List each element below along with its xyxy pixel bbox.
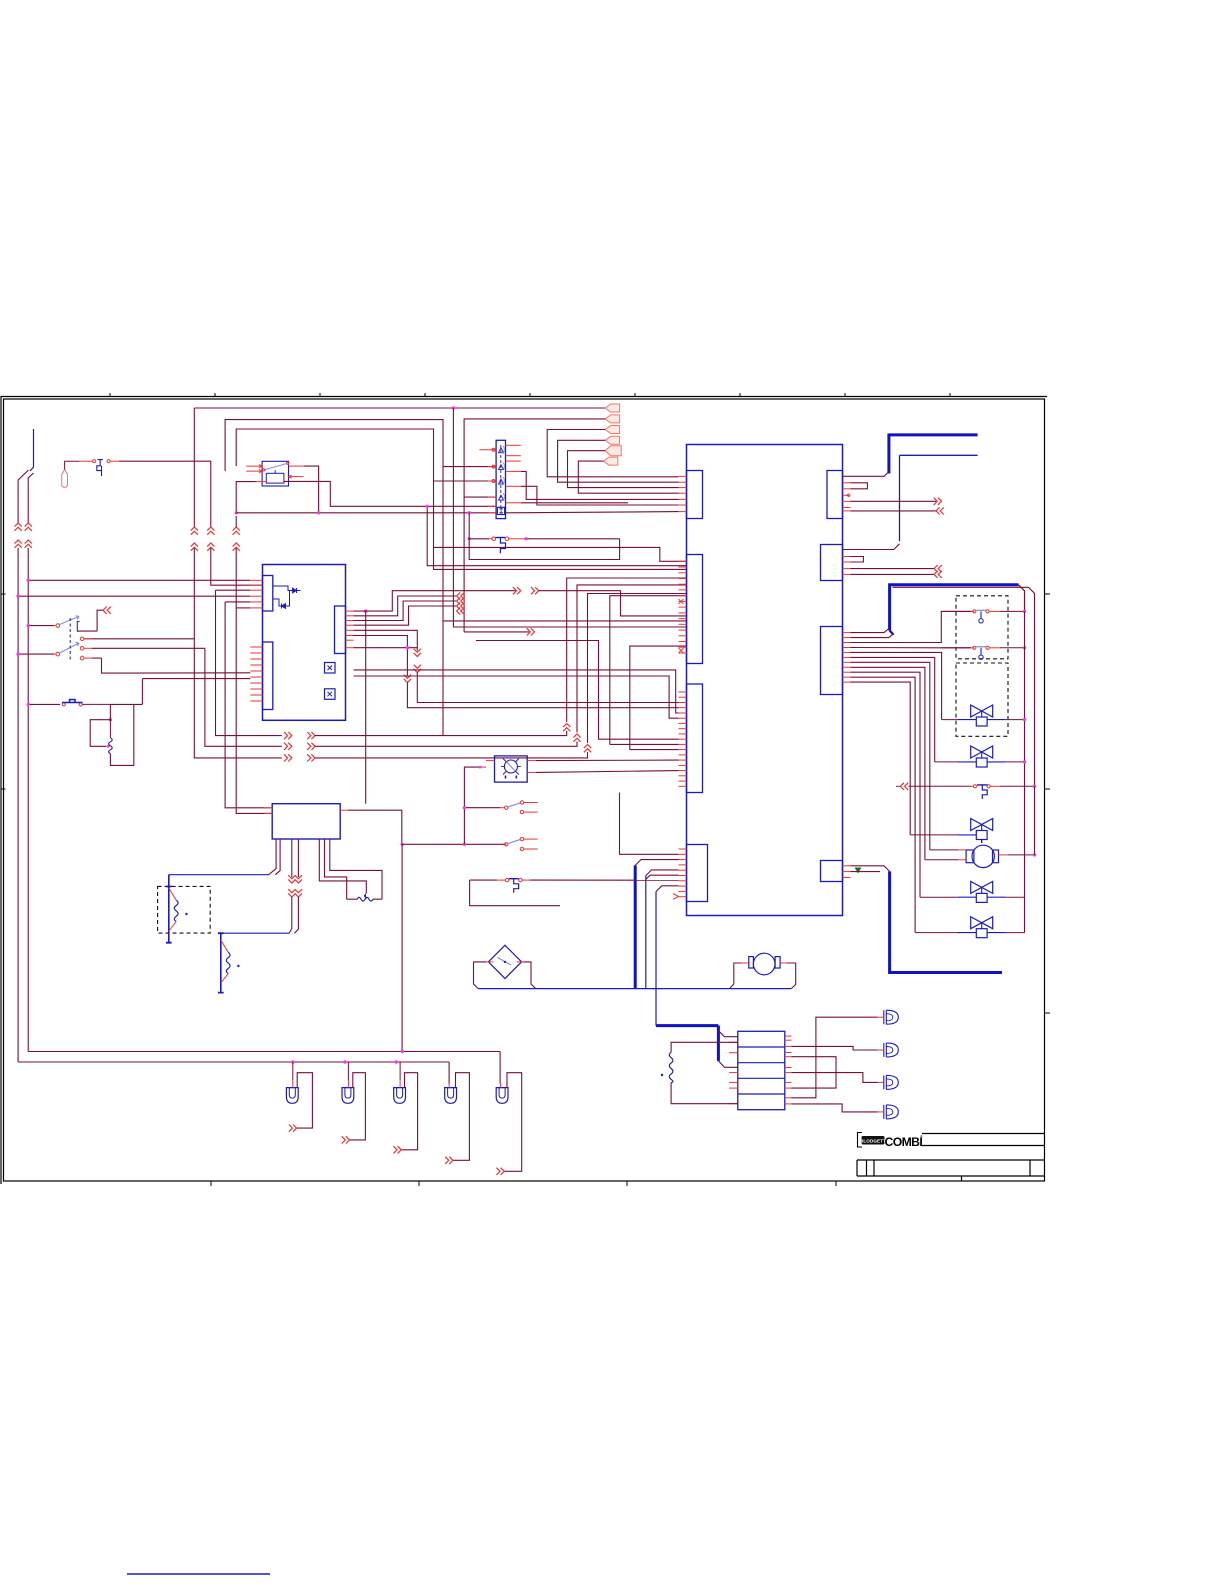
igniter sub box xyxy=(497,507,504,514)
lamp LP1 return wire xyxy=(297,1073,313,1128)
LED3 wire xyxy=(878,1081,884,1083)
wire bus x453.4 xyxy=(453,408,686,627)
red arrow pin xyxy=(847,494,850,497)
wire column x225.1 to transformer xyxy=(225,602,272,808)
wire T1 sec3 xyxy=(297,839,299,877)
wire column x426.5 xyxy=(427,506,686,565)
wire transformer feed drop xyxy=(365,611,367,804)
wire L1 rail lower xyxy=(18,548,449,1062)
junction dot xyxy=(107,745,110,748)
wire bullet to switch xyxy=(65,461,79,469)
diode D2 xyxy=(273,599,282,606)
wire S8 left drop xyxy=(470,880,560,906)
wire B1 right pin6 down xyxy=(354,636,408,677)
wire lug4 xyxy=(558,440,679,482)
junction dot xyxy=(468,511,471,514)
connector lug F6 xyxy=(603,457,617,465)
lamp LP5 return wire xyxy=(504,1073,522,1172)
wire y678.6 xyxy=(142,679,250,705)
wire B1 right pin1 through xyxy=(354,591,516,611)
wire nest y429 xyxy=(236,429,686,569)
wire y547.4 to B2 pin1 xyxy=(434,547,687,561)
LED2 wire xyxy=(878,1049,884,1051)
lamp H1 wires xyxy=(486,760,495,762)
wire CN3R pin10 xyxy=(851,677,916,932)
transformer right pin wire xyxy=(340,809,348,811)
B1 connector CN-C xyxy=(335,606,346,654)
border frame inner xyxy=(4,399,1045,1181)
relay pin B xyxy=(246,470,262,472)
wire to offpage right 2 xyxy=(851,510,937,512)
wire y620.9 east xyxy=(443,620,687,622)
igniter pin L4 red xyxy=(488,496,496,498)
wire igniter L2 feed xyxy=(443,466,496,468)
LED4 wire xyxy=(878,1111,884,1113)
blue bus y988.6 xyxy=(478,988,791,990)
border frame outer xyxy=(1,397,1047,1185)
B2 connector CN2R xyxy=(821,545,843,581)
igniter pin L2 red xyxy=(488,466,496,468)
thin blue bus 455 xyxy=(900,454,978,456)
wire column x204.9 xyxy=(205,648,282,746)
B2 CN2R pin stubs xyxy=(843,556,851,558)
B2 CN1L pin stubs xyxy=(679,475,687,477)
switch gang dashed link xyxy=(69,618,71,660)
junction dot xyxy=(463,843,466,846)
wire CN1R pin1 ramp xyxy=(843,472,889,477)
main controller B2 xyxy=(687,445,843,916)
wire CN3R pin5 xyxy=(851,652,942,719)
junction dot xyxy=(401,1050,404,1053)
indicator lamp LP5 xyxy=(496,1088,508,1104)
solenoid valve V5 xyxy=(971,881,993,893)
igniter pin L6 red xyxy=(488,512,496,514)
junction dot xyxy=(426,505,429,508)
connector lug F2 xyxy=(605,415,619,423)
lamp LP2 return wire xyxy=(350,1073,366,1140)
wire CN3R pin3 to probe1 xyxy=(851,611,972,642)
zone tick marks left xyxy=(1,593,6,595)
terminal block TB1 xyxy=(738,1031,785,1109)
wire lug3 xyxy=(547,430,678,477)
wire y673.1 xyxy=(102,658,251,673)
push button S4 xyxy=(28,703,60,705)
red mark CN4L xyxy=(673,894,679,900)
wire top-left jog xyxy=(18,470,33,492)
B1 pin stubs upper xyxy=(250,579,262,581)
control module B1 xyxy=(263,565,346,721)
logo bracket xyxy=(858,1133,863,1148)
switch arm upper xyxy=(60,617,80,625)
LED crossing wire xyxy=(791,1057,836,1088)
B2 connector CN1R xyxy=(827,471,843,519)
wire CN4L to col x656 xyxy=(656,886,679,892)
switch arm lower xyxy=(60,643,80,653)
igniter right pin R5 wire xyxy=(506,485,521,487)
wire CN4L long west xyxy=(620,793,679,855)
igniter right pin R2 xyxy=(506,455,521,457)
LED1 wire xyxy=(878,1016,884,1018)
indicator lamp H1 xyxy=(495,756,528,782)
dashed valve box xyxy=(956,663,1008,736)
wire B1 right pin5 down xyxy=(354,630,418,650)
junction dot xyxy=(1023,610,1026,613)
wire right rail x1024.5 xyxy=(1024,611,1026,932)
bus y580.3 xyxy=(28,579,250,581)
wire CN4L to thick blue xyxy=(635,860,678,866)
LED3 xyxy=(884,1075,887,1089)
junction dot xyxy=(109,718,112,721)
wire arrow bus 3 xyxy=(284,754,292,761)
wire parallel mid xyxy=(893,587,1035,786)
wire to offpage right 4 xyxy=(851,573,935,575)
selector switch S3 common upper xyxy=(28,625,54,627)
pump motor M1 xyxy=(972,845,994,867)
igniter pin L3 red xyxy=(488,480,496,482)
B2 CN3L pin stubs xyxy=(679,691,687,693)
wire B1 aux east 2 xyxy=(354,676,679,718)
heater element E2 xyxy=(220,933,222,992)
wire arrow bus 2 xyxy=(284,743,292,750)
switch bracket xyxy=(77,622,79,632)
wire igniter L4 feed xyxy=(464,496,496,498)
thick blue bus south xyxy=(634,865,637,988)
wire B1 pin5 west xyxy=(225,601,250,603)
zone tick marks bottom xyxy=(210,1181,212,1186)
wire break column x236.2 xyxy=(233,527,240,535)
B2 CN3R pin stubs xyxy=(843,632,851,634)
wire CN3R pin11 xyxy=(851,682,911,835)
B2 CN2L pin stubs xyxy=(679,560,687,562)
wire lamp rail xyxy=(401,844,403,1051)
wire CN2R pin1 ramp xyxy=(843,544,900,550)
LED1 xyxy=(884,1010,887,1024)
red x mark pins xyxy=(679,599,684,604)
lamp LP5 feed wire xyxy=(500,1084,502,1088)
connector lug F4 xyxy=(605,436,619,444)
flame sensor wires xyxy=(487,961,494,963)
wire L2 rail lower xyxy=(28,548,500,1052)
lamp LP4 feed wire xyxy=(448,1084,450,1088)
wire to offpage arrow xyxy=(97,610,103,631)
wire CN3R pin1 ramp xyxy=(851,629,889,633)
motor M1 wires xyxy=(930,849,958,851)
wire CN3R pin7 xyxy=(851,662,930,850)
wire CN3R pin9 xyxy=(851,672,921,897)
junction dot xyxy=(468,537,471,540)
junction dot xyxy=(452,406,455,409)
diode D1 xyxy=(273,586,293,591)
title block lines xyxy=(857,1134,1045,1177)
switch contact row 2 xyxy=(80,647,84,651)
B2 connector CN3R xyxy=(821,627,843,695)
wire coil return east xyxy=(284,481,496,506)
connector lug F1 xyxy=(605,404,619,412)
indicator lamp LP2 xyxy=(342,1088,354,1104)
wire break column x210.8 xyxy=(210,471,212,527)
connector bullet J1 xyxy=(62,470,68,488)
wire x609.8 column xyxy=(610,596,687,745)
thick blue bottom path xyxy=(656,1024,718,1027)
selector switch S7 xyxy=(505,843,507,845)
wire arrow bus 1 xyxy=(284,732,292,739)
thick blue bus mid xyxy=(890,585,1019,631)
dashed probe box xyxy=(956,596,1008,659)
wire lug1 feed xyxy=(194,407,605,409)
off-page arrows rails upper xyxy=(15,523,22,531)
relay pin A xyxy=(246,465,262,467)
pressure switch S8 xyxy=(470,879,498,881)
wire CN3R pin6 xyxy=(851,657,935,762)
junction dot xyxy=(364,609,367,612)
solenoid valve V3 xyxy=(971,746,993,758)
terminal block left pin stubs xyxy=(729,1041,738,1043)
junction dot xyxy=(1033,853,1036,856)
solenoid valve V4 xyxy=(971,819,993,831)
svg-text:®: ® xyxy=(920,1134,923,1139)
wire L2 rail xyxy=(27,492,29,523)
wire switch to east xyxy=(107,460,110,463)
wire blue to block pin3 xyxy=(718,1061,737,1067)
indicator lamp LP3 xyxy=(394,1088,406,1104)
wire B1 right pin4 xyxy=(354,606,457,625)
B2 CN1R pin stubs xyxy=(843,482,851,484)
wire CN4R to thick blue xyxy=(851,866,890,872)
relay coil pin D stub xyxy=(289,476,304,478)
bus switches feed xyxy=(402,843,506,845)
wire offpage east xyxy=(464,631,529,633)
wire column x215.5 xyxy=(216,590,282,735)
igniter pin L1 xyxy=(479,449,496,451)
wire CN3R pin2 ramp xyxy=(851,634,894,638)
wire CN3R pin4 to probe2 xyxy=(851,647,972,649)
switch contact row 3 xyxy=(80,656,84,660)
wire x645.8 end xyxy=(645,988,647,990)
bus y512.8 xyxy=(236,512,496,514)
offpage arrow extra xyxy=(457,607,465,614)
wire B1 right pin3 xyxy=(354,601,457,621)
zone tick marks top xyxy=(109,393,111,397)
wire CN2R U loop xyxy=(851,557,864,563)
relay coil pin E wire xyxy=(256,481,266,483)
junction dot xyxy=(235,511,238,514)
B2 connector CN4L xyxy=(687,845,708,902)
junction dot xyxy=(1023,646,1026,649)
junction dot xyxy=(463,806,466,809)
LED4 xyxy=(884,1105,887,1119)
wire B1 pin6 west xyxy=(236,607,250,609)
bus y596.2 xyxy=(18,595,250,597)
solenoid valve V2 xyxy=(971,705,993,717)
transformer T1 xyxy=(272,804,340,839)
wire B1 right pin8 bus xyxy=(354,647,418,649)
flame sensor D3 xyxy=(488,945,521,978)
junction dot xyxy=(16,595,19,598)
indicator lamp LP1 xyxy=(286,1088,298,1104)
svg-text:BLODGETT: BLODGETT xyxy=(860,1139,886,1144)
igniter module A1 xyxy=(496,440,505,518)
blower motor M2 xyxy=(753,953,775,975)
wire x598.5 column xyxy=(476,641,679,740)
solenoid valve V6 xyxy=(971,917,993,929)
lamp LP2 feed wire xyxy=(347,1062,349,1080)
junction dot xyxy=(27,579,30,582)
wire B1 aux east 1 xyxy=(354,670,679,713)
wire blue drop xyxy=(30,429,34,471)
wire L1 rail xyxy=(17,492,19,523)
junction dot xyxy=(525,537,528,540)
wire lug6 xyxy=(578,461,678,493)
indicator lamp LP4 xyxy=(445,1088,457,1104)
level probe P1 xyxy=(942,610,972,612)
B1 right pin stubs xyxy=(346,610,354,612)
green polarity mark xyxy=(856,868,861,873)
resistor R3 loop xyxy=(671,1042,738,1052)
junction dot xyxy=(27,703,30,706)
selector switch S6 xyxy=(464,807,500,809)
B2 connector CN1L xyxy=(687,471,703,519)
transformer left pin stubs xyxy=(264,808,272,813)
igniter right pin R3 xyxy=(506,460,521,462)
junction dot xyxy=(400,843,403,846)
B1 connector CN-A xyxy=(263,576,273,612)
junction dot xyxy=(317,511,320,514)
wire PS2 left drop xyxy=(468,513,470,539)
igniter pin L5 red xyxy=(488,505,496,507)
lamp LP4 return wire xyxy=(453,1073,470,1161)
resistor R1 loop xyxy=(90,704,110,746)
connector lug F3 xyxy=(605,426,619,434)
wire right rail x1034.5 lower xyxy=(1034,786,1036,855)
B2 CN4L pin stubs xyxy=(679,848,687,850)
wire CN1R U loop xyxy=(851,483,868,489)
wire bus y512.8 east xyxy=(506,512,679,513)
wire CN3R pin8 xyxy=(851,667,925,860)
wire igniter L3 feed xyxy=(434,480,497,482)
level probe P2 xyxy=(942,647,972,649)
selector switch S3 common lower xyxy=(18,653,54,655)
wire to offpage right 1 xyxy=(851,500,937,502)
pressure switch S2 xyxy=(469,538,489,540)
wire to offpage right 3 xyxy=(851,568,935,570)
wire lug5 xyxy=(568,451,679,488)
LED2 xyxy=(884,1043,887,1057)
relay pin C wire xyxy=(289,465,304,467)
flow switch S1 xyxy=(93,460,96,463)
lamp LP3 return wire xyxy=(401,1073,417,1150)
indicator box X1 xyxy=(325,663,336,674)
transformer bottom pins right xyxy=(319,839,366,893)
BLODGETT logo box xyxy=(862,1136,885,1145)
resistor R2 xyxy=(365,893,366,899)
thick blue bus bottom right xyxy=(890,871,1002,972)
B1 pin stubs lower xyxy=(250,646,262,648)
relay K1 xyxy=(262,461,288,486)
B2 connector CN3L xyxy=(687,684,703,793)
junction dot xyxy=(1023,760,1026,763)
dashed box heater xyxy=(158,886,211,933)
zone tick marks right xyxy=(1045,593,1051,595)
transformer bottom pins xyxy=(268,839,280,875)
igniter right pin R4 wire xyxy=(506,470,521,472)
wire B1 right pin2 xyxy=(354,596,457,616)
wire T1 sec2 xyxy=(291,839,293,877)
lamp bus wires xyxy=(499,1052,501,1084)
B2 connector CN4R xyxy=(821,861,843,882)
lamp LP3 feed wire xyxy=(399,1062,401,1080)
igniter right pin R6 wire xyxy=(506,502,521,504)
switch contact row 1 xyxy=(80,637,84,641)
wire blue to block pin1 xyxy=(718,1031,737,1037)
lamp LP1 feed wire xyxy=(292,1062,294,1080)
float switch S5 wire xyxy=(896,785,900,787)
terminal block right pin stubs xyxy=(785,1035,792,1037)
B2 CN4R pin stubs xyxy=(843,865,851,867)
junction dot xyxy=(27,624,30,627)
blue bus to resistor 2 xyxy=(221,932,289,934)
B2 connector CN2L xyxy=(687,555,703,664)
indicator box X2 xyxy=(325,689,336,700)
igniter right pin R1 xyxy=(506,444,521,446)
wire nest y419.6 xyxy=(225,420,443,736)
junction dot xyxy=(1023,718,1026,721)
wire CN4L pair to blue thin xyxy=(646,870,679,880)
wire x629.8 U column xyxy=(630,646,687,750)
blue bus to dashed resistor xyxy=(169,874,268,876)
wire PS2 bypass loop xyxy=(469,539,619,560)
junction dot xyxy=(479,766,482,769)
thick blue bus top xyxy=(889,433,978,436)
ground reference line xyxy=(127,1573,270,1575)
wire B1 pin3 west xyxy=(216,589,251,591)
wire lug2 xyxy=(464,419,605,632)
connector lug F5 xyxy=(605,446,621,456)
heater element E1 xyxy=(168,875,170,943)
resistor R1 xyxy=(109,720,111,738)
junction dot xyxy=(16,652,19,655)
wire PS2 right xyxy=(509,538,524,540)
svg-text:COMBI: COMBI xyxy=(885,1135,923,1149)
wire break column x194.3 xyxy=(193,408,195,527)
junction dot xyxy=(291,1060,294,1063)
junction dot xyxy=(1033,785,1036,788)
B1 connector CN-B xyxy=(263,642,273,710)
motor M2 wires xyxy=(741,962,749,964)
